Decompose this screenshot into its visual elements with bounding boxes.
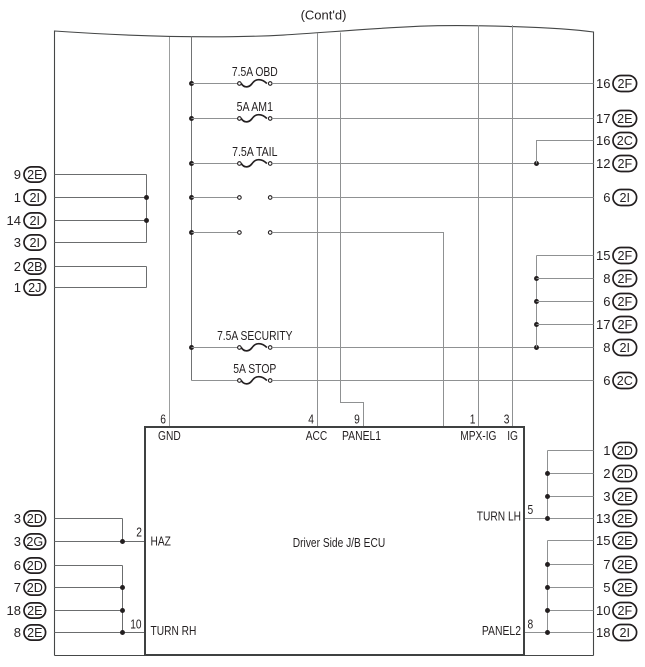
wire bus MPX-IG feed (x=478.5, top border to ECU pin 1) [478, 26, 480, 428]
pin 4 number [308, 411, 314, 426]
svg-text:2I: 2I [30, 191, 41, 205]
junction dot 5 2E [545, 585, 550, 590]
wire 5 2E [548, 587, 594, 589]
wire 2 2B [55, 266, 147, 268]
svg-text:4: 4 [308, 411, 314, 426]
wire bus IG feed (x=512.5, top border to ECU pin 3) [512, 25, 514, 427]
svg-text:2E: 2E [617, 512, 632, 526]
svg-text:6: 6 [603, 373, 610, 388]
ECU name label [293, 535, 385, 550]
svg-text:5: 5 [528, 502, 534, 517]
contact pair SW2 (to ECU) [189, 230, 443, 427]
junction dot TURN LH group [545, 516, 550, 521]
connector label 14 2I [7, 213, 46, 228]
wire 3 2D [55, 518, 123, 520]
pin MPX-IG label [460, 428, 496, 443]
svg-text:3: 3 [14, 511, 21, 526]
svg-text:7.5A SECURITY: 7.5A SECURITY [217, 328, 293, 343]
wire 6 2D [55, 565, 123, 567]
wire bus PANEL1 feed (x=340.5, top border, jog to pin 9) [341, 33, 364, 428]
wire 18 2E [55, 610, 123, 612]
svg-text:14: 14 [7, 213, 21, 228]
svg-text:2D: 2D [617, 444, 633, 458]
wire TURN LH pin 5 to 13 2E [524, 518, 594, 520]
svg-text:2G: 2G [26, 535, 43, 549]
connector label 6 2C [603, 373, 636, 389]
pin TURN RH label [151, 623, 197, 638]
svg-text:2: 2 [136, 525, 142, 540]
svg-text:HAZ: HAZ [151, 534, 172, 549]
svg-text:1: 1 [470, 411, 476, 426]
svg-text:2E: 2E [27, 168, 42, 182]
junction dot 7 2D [120, 585, 125, 590]
svg-text:2E: 2E [617, 490, 632, 504]
svg-text:3: 3 [14, 534, 21, 549]
wire bus 2B-2J pair (x=146.5) [146, 267, 148, 288]
junction dot 1 2I [144, 195, 149, 200]
svg-text:PANEL2: PANEL2 [482, 623, 521, 638]
svg-text:2F: 2F [617, 157, 632, 171]
svg-text:2F: 2F [617, 295, 632, 309]
svg-text:5A STOP: 5A STOP [233, 361, 276, 376]
svg-text:2F: 2F [617, 604, 632, 618]
svg-text:5: 5 [603, 580, 610, 595]
connector label 13 2E [596, 511, 637, 527]
svg-text:6: 6 [603, 190, 610, 205]
svg-text:2C: 2C [617, 134, 633, 148]
wire bus TURN RH group (x=122.5) [122, 566, 124, 633]
pin TURN LH label [477, 509, 521, 524]
svg-text:2I: 2I [30, 236, 41, 250]
svg-text:2B: 2B [27, 260, 42, 274]
connector label 9 2E [14, 167, 46, 182]
ECU U1 Driver Side J/B ECU box [145, 427, 524, 655]
pin 10 number [130, 616, 141, 631]
junction dot 3 2E [545, 494, 550, 499]
pin 3 number [504, 411, 510, 426]
contact pair SW1 (to 6 2I) [189, 195, 593, 200]
svg-text:Driver Side J/B ECU: Driver Side J/B ECU [293, 535, 385, 550]
junction dot 8 2F [534, 276, 539, 281]
svg-text:1: 1 [14, 190, 21, 205]
wire bus upper-left group (x=146.5) [146, 175, 148, 243]
pin PANEL2 label [482, 623, 521, 638]
svg-text:17: 17 [596, 111, 610, 126]
svg-text:2E: 2E [617, 112, 632, 126]
pin 9 number [354, 411, 360, 426]
wire 9 2E [55, 174, 147, 176]
connector label 3 2D [14, 511, 46, 526]
svg-text:6: 6 [14, 558, 21, 573]
svg-text:8: 8 [603, 271, 610, 286]
wire 1 2D [548, 450, 594, 452]
wire 3 2I [55, 242, 147, 244]
wire bus TURN LH group (x=547.5) [547, 451, 549, 519]
junction dot 2 2D [545, 471, 550, 476]
wire bus GND feed (x=169.5, top border to ECU pin 6) [169, 37, 171, 427]
svg-text:7: 7 [603, 557, 610, 572]
svg-text:GND: GND [158, 428, 181, 443]
svg-text:17: 17 [596, 317, 610, 332]
fuse F3 7.5A TAIL [189, 144, 593, 167]
wire 3 2G to HAZ pin 2 [55, 541, 146, 543]
svg-text:16: 16 [596, 76, 610, 91]
svg-text:2F: 2F [617, 272, 632, 286]
svg-text:16: 16 [596, 133, 610, 148]
connector label 2 2D [603, 466, 636, 482]
junction dot TAIL output / 16 2C branch [534, 161, 539, 166]
wire to 8 2F [537, 278, 594, 280]
connector label 6 2F [603, 294, 636, 310]
svg-text:2E: 2E [27, 626, 42, 640]
connector label 18 2I [596, 625, 637, 641]
svg-text:TURN LH: TURN LH [477, 509, 521, 524]
svg-text:3: 3 [504, 411, 510, 426]
wire 1 2J [55, 287, 147, 289]
connector label 8 2F [603, 271, 636, 287]
svg-text:7.5A OBD: 7.5A OBD [232, 64, 278, 79]
junction dot SECURITY output bus [534, 345, 539, 350]
connector label 8 2E [14, 625, 46, 640]
wire to 15 2F [537, 255, 594, 257]
svg-text:ACC: ACC [306, 428, 328, 443]
connector label 7 2D [14, 580, 46, 595]
wire 1 2I [55, 197, 147, 199]
wire PANEL2 pin 8 to 18 2I [524, 632, 594, 634]
junction dot 10 2F [545, 608, 550, 613]
connector label 15 2E [596, 533, 637, 549]
connector label 10 2F [596, 603, 637, 619]
svg-text:2I: 2I [620, 341, 631, 355]
svg-text:8: 8 [14, 625, 21, 640]
svg-text:2D: 2D [27, 559, 43, 573]
connector label 6 2D [14, 558, 46, 573]
svg-text:2E: 2E [27, 604, 42, 618]
svg-text:2I: 2I [620, 191, 631, 205]
connector label 5 2E [603, 580, 636, 596]
svg-text:8: 8 [603, 340, 610, 355]
svg-text:2E: 2E [617, 558, 632, 572]
svg-text:13: 13 [596, 511, 610, 526]
svg-text:10: 10 [596, 603, 610, 618]
connector label 3 2E [603, 489, 636, 505]
svg-text:15: 15 [596, 248, 610, 263]
pin 6 number [160, 411, 166, 426]
wire 7 2D [55, 587, 123, 589]
svg-text:6: 6 [603, 294, 610, 309]
fuse F2 5A AM1 [189, 99, 593, 122]
connector label 15 2F [596, 248, 637, 264]
connector label 1 2I [14, 190, 46, 205]
connector label 3 2G [14, 534, 46, 549]
svg-text:2D: 2D [27, 581, 43, 595]
svg-text:9: 9 [14, 167, 21, 182]
connector label 6 2I [603, 190, 636, 206]
connector label 1 2D [603, 443, 636, 459]
svg-text:IG: IG [507, 428, 518, 443]
pin 5 number [528, 502, 534, 517]
svg-text:9: 9 [354, 411, 360, 426]
connector label 2 2B [14, 259, 46, 274]
svg-text:1: 1 [603, 443, 610, 458]
svg-text:18: 18 [7, 603, 21, 618]
junction dot PANEL2 group [545, 630, 550, 635]
svg-text:8: 8 [528, 616, 534, 631]
wire bus HAZ group (x=122.5) [122, 519, 124, 542]
continuation border (outer box with wavy top edge) [55, 26, 594, 656]
wire branch to 16 2C [537, 141, 594, 164]
connector label 16 2F [596, 76, 637, 92]
svg-text:TURN RH: TURN RH [151, 623, 197, 638]
pin PANEL1 label [342, 428, 381, 443]
svg-text:2I: 2I [620, 626, 631, 640]
junction dot 17 2F [534, 322, 539, 327]
title (Cont'd) [301, 8, 347, 23]
svg-text:15: 15 [596, 533, 610, 548]
wire bus ACC feed (x=317.5, top border to ECU pin 4) [317, 33, 319, 427]
wire 7 2E [548, 564, 594, 566]
svg-text:MPX-IG: MPX-IG [460, 428, 496, 443]
connector label 17 2E [596, 111, 637, 127]
svg-text:2I: 2I [30, 214, 41, 228]
wire 15 2E [548, 540, 594, 542]
svg-text:2D: 2D [617, 467, 633, 481]
connector label 18 2E [7, 603, 46, 618]
svg-text:3: 3 [14, 235, 21, 250]
svg-text:2J: 2J [28, 281, 41, 295]
wire 2 2D [548, 473, 594, 475]
svg-text:2F: 2F [617, 77, 632, 91]
connector label 17 2F [596, 317, 637, 333]
svg-text:2F: 2F [617, 249, 632, 263]
junction dot 7 2E [545, 562, 550, 567]
wire 3 2E [548, 496, 594, 498]
junction dot TURN RH group [120, 630, 125, 635]
svg-text:12: 12 [596, 156, 610, 171]
wire 8 2E to TURN RH pin 10 [55, 632, 146, 634]
pin HAZ label [151, 534, 172, 549]
pin 1 number [470, 411, 476, 426]
svg-text:PANEL1: PANEL1 [342, 428, 381, 443]
connector label 8 2I [603, 340, 636, 356]
fuse F4 7.5A SECURITY [189, 328, 593, 351]
svg-text:2: 2 [603, 466, 610, 481]
pin GND label [158, 428, 181, 443]
svg-text:2E: 2E [617, 534, 632, 548]
pin 8 number [528, 616, 534, 631]
junction dot HAZ group [120, 539, 125, 544]
junction dot 6 2F [534, 299, 539, 304]
junction dot 14 2I [144, 218, 149, 223]
fuse F1 7.5A OBD [189, 64, 593, 87]
svg-text:2F: 2F [617, 318, 632, 332]
svg-text:5A AM1: 5A AM1 [237, 99, 273, 114]
wire bus PANEL2 group (x=547.5) [547, 541, 549, 633]
svg-text:(Cont'd): (Cont'd) [301, 8, 347, 23]
pin IG label [507, 428, 518, 443]
svg-text:2C: 2C [617, 374, 633, 388]
wire bus fuse feed (x=191.5, top border to STOP fuse row) [191, 36, 193, 381]
svg-text:2D: 2D [27, 512, 43, 526]
svg-text:6: 6 [160, 411, 166, 426]
svg-text:10: 10 [130, 616, 141, 631]
svg-text:7: 7 [14, 580, 21, 595]
wire 10 2F [548, 610, 594, 612]
connector label 7 2E [603, 557, 636, 573]
svg-text:1: 1 [14, 280, 21, 295]
connector label 12 2F [596, 156, 637, 172]
fuse F5 5A STOP [192, 361, 594, 384]
svg-text:18: 18 [596, 625, 610, 640]
pin 2 number [136, 525, 142, 540]
svg-text:7.5A TAIL: 7.5A TAIL [232, 144, 277, 159]
pin ACC label [306, 428, 328, 443]
wire to 17 2F [537, 324, 594, 326]
svg-text:2: 2 [14, 259, 21, 274]
junction dot 18 2E [120, 608, 125, 613]
connector label 3 2I [14, 235, 46, 250]
svg-text:3: 3 [603, 489, 610, 504]
svg-text:2E: 2E [617, 581, 632, 595]
connector label 1 2J [14, 280, 46, 295]
wire 14 2I [55, 220, 147, 222]
wire to 6 2F [537, 301, 594, 303]
wire bus security outputs (x=536.5) [536, 256, 538, 348]
connector label 16 2C [596, 133, 637, 149]
